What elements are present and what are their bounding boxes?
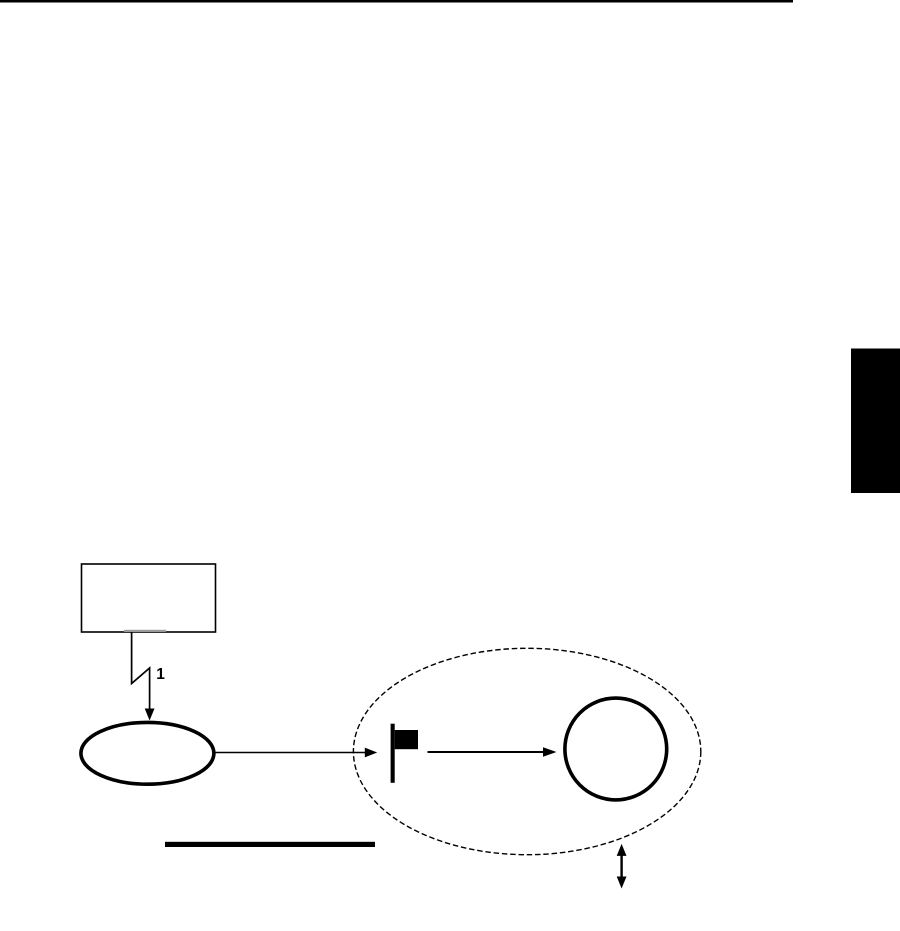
double arrow top head bbox=[617, 844, 627, 856]
thin arrow shaft (ellipse to flag) bbox=[216, 752, 366, 754]
flag banner bbox=[395, 730, 418, 749]
svg-text:1: 1 bbox=[156, 666, 165, 683]
thin arrowhead bbox=[365, 748, 377, 758]
ellipse node bbox=[81, 722, 214, 784]
double arrow shaft bbox=[620, 854, 622, 878]
double arrow bottom head bbox=[617, 877, 627, 889]
zigzag arrowhead bbox=[145, 709, 155, 721]
top rule bbox=[0, 0, 793, 3]
box (rectangle node) bbox=[82, 564, 216, 632]
chapter tab bbox=[851, 349, 900, 494]
flag pole bbox=[391, 724, 395, 783]
circle node bbox=[565, 698, 667, 800]
zigzag (lightning) arrow shaft bbox=[132, 632, 150, 710]
arrowhead (flag to circle) bbox=[543, 747, 557, 756]
arrow shaft (flag to circle) bbox=[428, 751, 545, 753]
dashed ellipse (group boundary) bbox=[353, 648, 700, 854]
thick underline bbox=[165, 842, 375, 847]
grey segment on box bottom edge bbox=[124, 630, 166, 632]
